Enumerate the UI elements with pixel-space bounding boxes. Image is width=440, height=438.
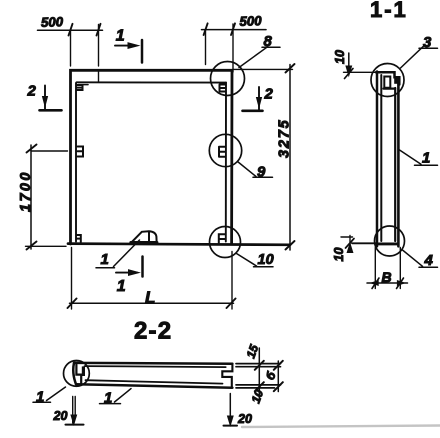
svg-text:1: 1 — [101, 251, 109, 268]
dim 3275: dimension line — [289, 65, 291, 251]
1-1 bar left inner line — [380, 75, 382, 241]
label 1 leader (2-2 mid) — [100, 389, 132, 404]
1-1 bar right outer line — [397, 84, 400, 246]
label 10 leader — [237, 254, 274, 267]
svg-text:1700: 1700 — [18, 170, 34, 212]
weld tab bottom middle (D-shape) — [132, 231, 157, 242]
faint scan streak bottom right — [242, 426, 440, 428]
dim 500 right: tick 2 — [231, 23, 235, 35]
svg-text:3: 3 — [423, 34, 432, 51]
1-1 bottom foot extension — [352, 242, 377, 244]
tab clip left middle — [78, 147, 84, 157]
2-2 right dims: dim line 15/10 vertical — [258, 348, 260, 402]
svg-text:8: 8 — [264, 33, 273, 50]
section mark 1 top: bar — [141, 40, 144, 63]
2-2 left hook — [76, 365, 81, 384]
corner step top-left — [78, 84, 88, 86]
detail circle 3 — [371, 64, 404, 97]
label 9 leader — [238, 162, 273, 178]
dim L: extension lines — [72, 248, 233, 310]
2-2 right end with notch — [222, 364, 232, 388]
detail circle 4 — [375, 226, 405, 256]
tab foot bottom-left corner — [77, 235, 81, 242]
section mark 1 bottom: arrow — [116, 272, 137, 274]
1-1 bottom cap — [377, 242, 398, 245]
dim B: extension lines — [375, 248, 400, 289]
label 4 leader — [403, 250, 438, 267]
dim L: ticks — [68, 299, 236, 309]
label 1 leader (1-1 bar) — [399, 150, 438, 166]
svg-text:20: 20 — [237, 412, 252, 426]
svg-text:10: 10 — [333, 50, 347, 64]
frame inner right line — [225, 83, 227, 242]
1-1 hook slot — [384, 77, 390, 88]
tab clip left upper — [77, 85, 83, 90]
svg-text:1: 1 — [422, 150, 430, 167]
tab clip right top — [220, 85, 226, 92]
svg-text:10: 10 — [332, 248, 346, 262]
dim 1700: dimension line — [30, 145, 32, 249]
svg-text:20: 20 — [53, 409, 68, 423]
svg-text:500: 500 — [41, 14, 64, 30]
dim L: dimension line — [70, 302, 234, 304]
dim 10 bottom (1-1) — [349, 236, 351, 253]
label 3 leader — [401, 46, 438, 68]
svg-text:1: 1 — [116, 28, 125, 45]
dim 500 left: tick 2 — [97, 24, 101, 36]
2-2 bar left end cap — [73, 363, 76, 384]
svg-text:500: 500 — [239, 13, 262, 29]
section mark 2 right: foot — [243, 110, 263, 113]
panel frame bottom line extended to 3275 dim — [68, 244, 290, 245]
svg-text:1-1: 1-1 — [370, 0, 408, 22]
frame inner top line — [77, 81, 227, 83]
section mark 2 right: arrow down — [258, 87, 260, 111]
1-1 bar right inner line — [394, 88, 396, 241]
svg-text:1: 1 — [117, 278, 126, 295]
dim 500 left: line — [38, 29, 103, 31]
svg-text:1: 1 — [104, 390, 112, 407]
svg-text:9: 9 — [257, 164, 266, 181]
dim B: dimension line — [367, 282, 408, 284]
detail circle 10 — [210, 227, 241, 258]
svg-text:2: 2 — [264, 86, 274, 103]
detail circle 9 — [209, 134, 241, 166]
svg-text:3275: 3275 — [277, 119, 293, 158]
dim 500 right: line — [202, 29, 267, 31]
label 8 leader — [239, 47, 280, 68]
label 1 leader (2-2 left) — [33, 387, 66, 402]
svg-text:2: 2 — [27, 83, 37, 100]
dim B: arrows — [371, 281, 405, 286]
2-2 bar bottom outer line — [76, 384, 232, 388]
1-1 bar left outer line — [376, 72, 379, 247]
2-2 bar bottom inner line — [86, 380, 223, 383]
dim 1700: ticks — [27, 145, 37, 153]
frame inner left line — [75, 83, 77, 242]
2-2 right dims: extension lines — [236, 364, 281, 388]
dim 500 left: extension lines — [71, 25, 99, 83]
tick slashes at dim crossings — [255, 361, 283, 391]
section mark 1 bottom: bar — [141, 257, 144, 277]
section mark 2 left: foot — [40, 109, 62, 112]
tab clip right middle — [219, 147, 225, 157]
svg-text:1: 1 — [36, 389, 44, 406]
svg-text:4: 4 — [424, 252, 434, 269]
dim 3275: ticks — [286, 64, 295, 250]
dim 3275: top extension line — [234, 68, 293, 70]
2-2 bar top outer line — [74, 362, 232, 365]
tab clip right bottom — [219, 234, 225, 243]
detail circle 2-2 left — [64, 361, 90, 387]
callout 1 leader (bottom tab) — [96, 240, 140, 268]
panel frame outer rectangle (plan view) — [71, 70, 233, 244]
detail circle 8 — [211, 62, 245, 96]
2-2 bar top inner line — [85, 366, 226, 367]
1-1 top cap and hook — [376, 72, 399, 84]
dim 500 right: tick 1 — [204, 23, 208, 35]
dim 10 top (1-1) — [348, 53, 350, 70]
section mark 1 top: arrow — [115, 45, 136, 47]
dim 1700: extension lines — [31, 150, 68, 152]
2-2 right dims: dim line b vertical — [277, 361, 279, 392]
section mark 2 left: arrow down — [44, 86, 46, 110]
dim 20 right — [229, 394, 231, 421]
svg-text:2-2: 2-2 — [134, 318, 172, 345]
svg-text:10: 10 — [258, 252, 274, 268]
dim 500 right: extension lines — [206, 24, 234, 72]
dim 20 left — [73, 397, 76, 424]
svg-text:В: В — [382, 269, 392, 285]
dim 500 left: tick 1 — [69, 24, 73, 36]
svg-text:L: L — [145, 288, 155, 307]
